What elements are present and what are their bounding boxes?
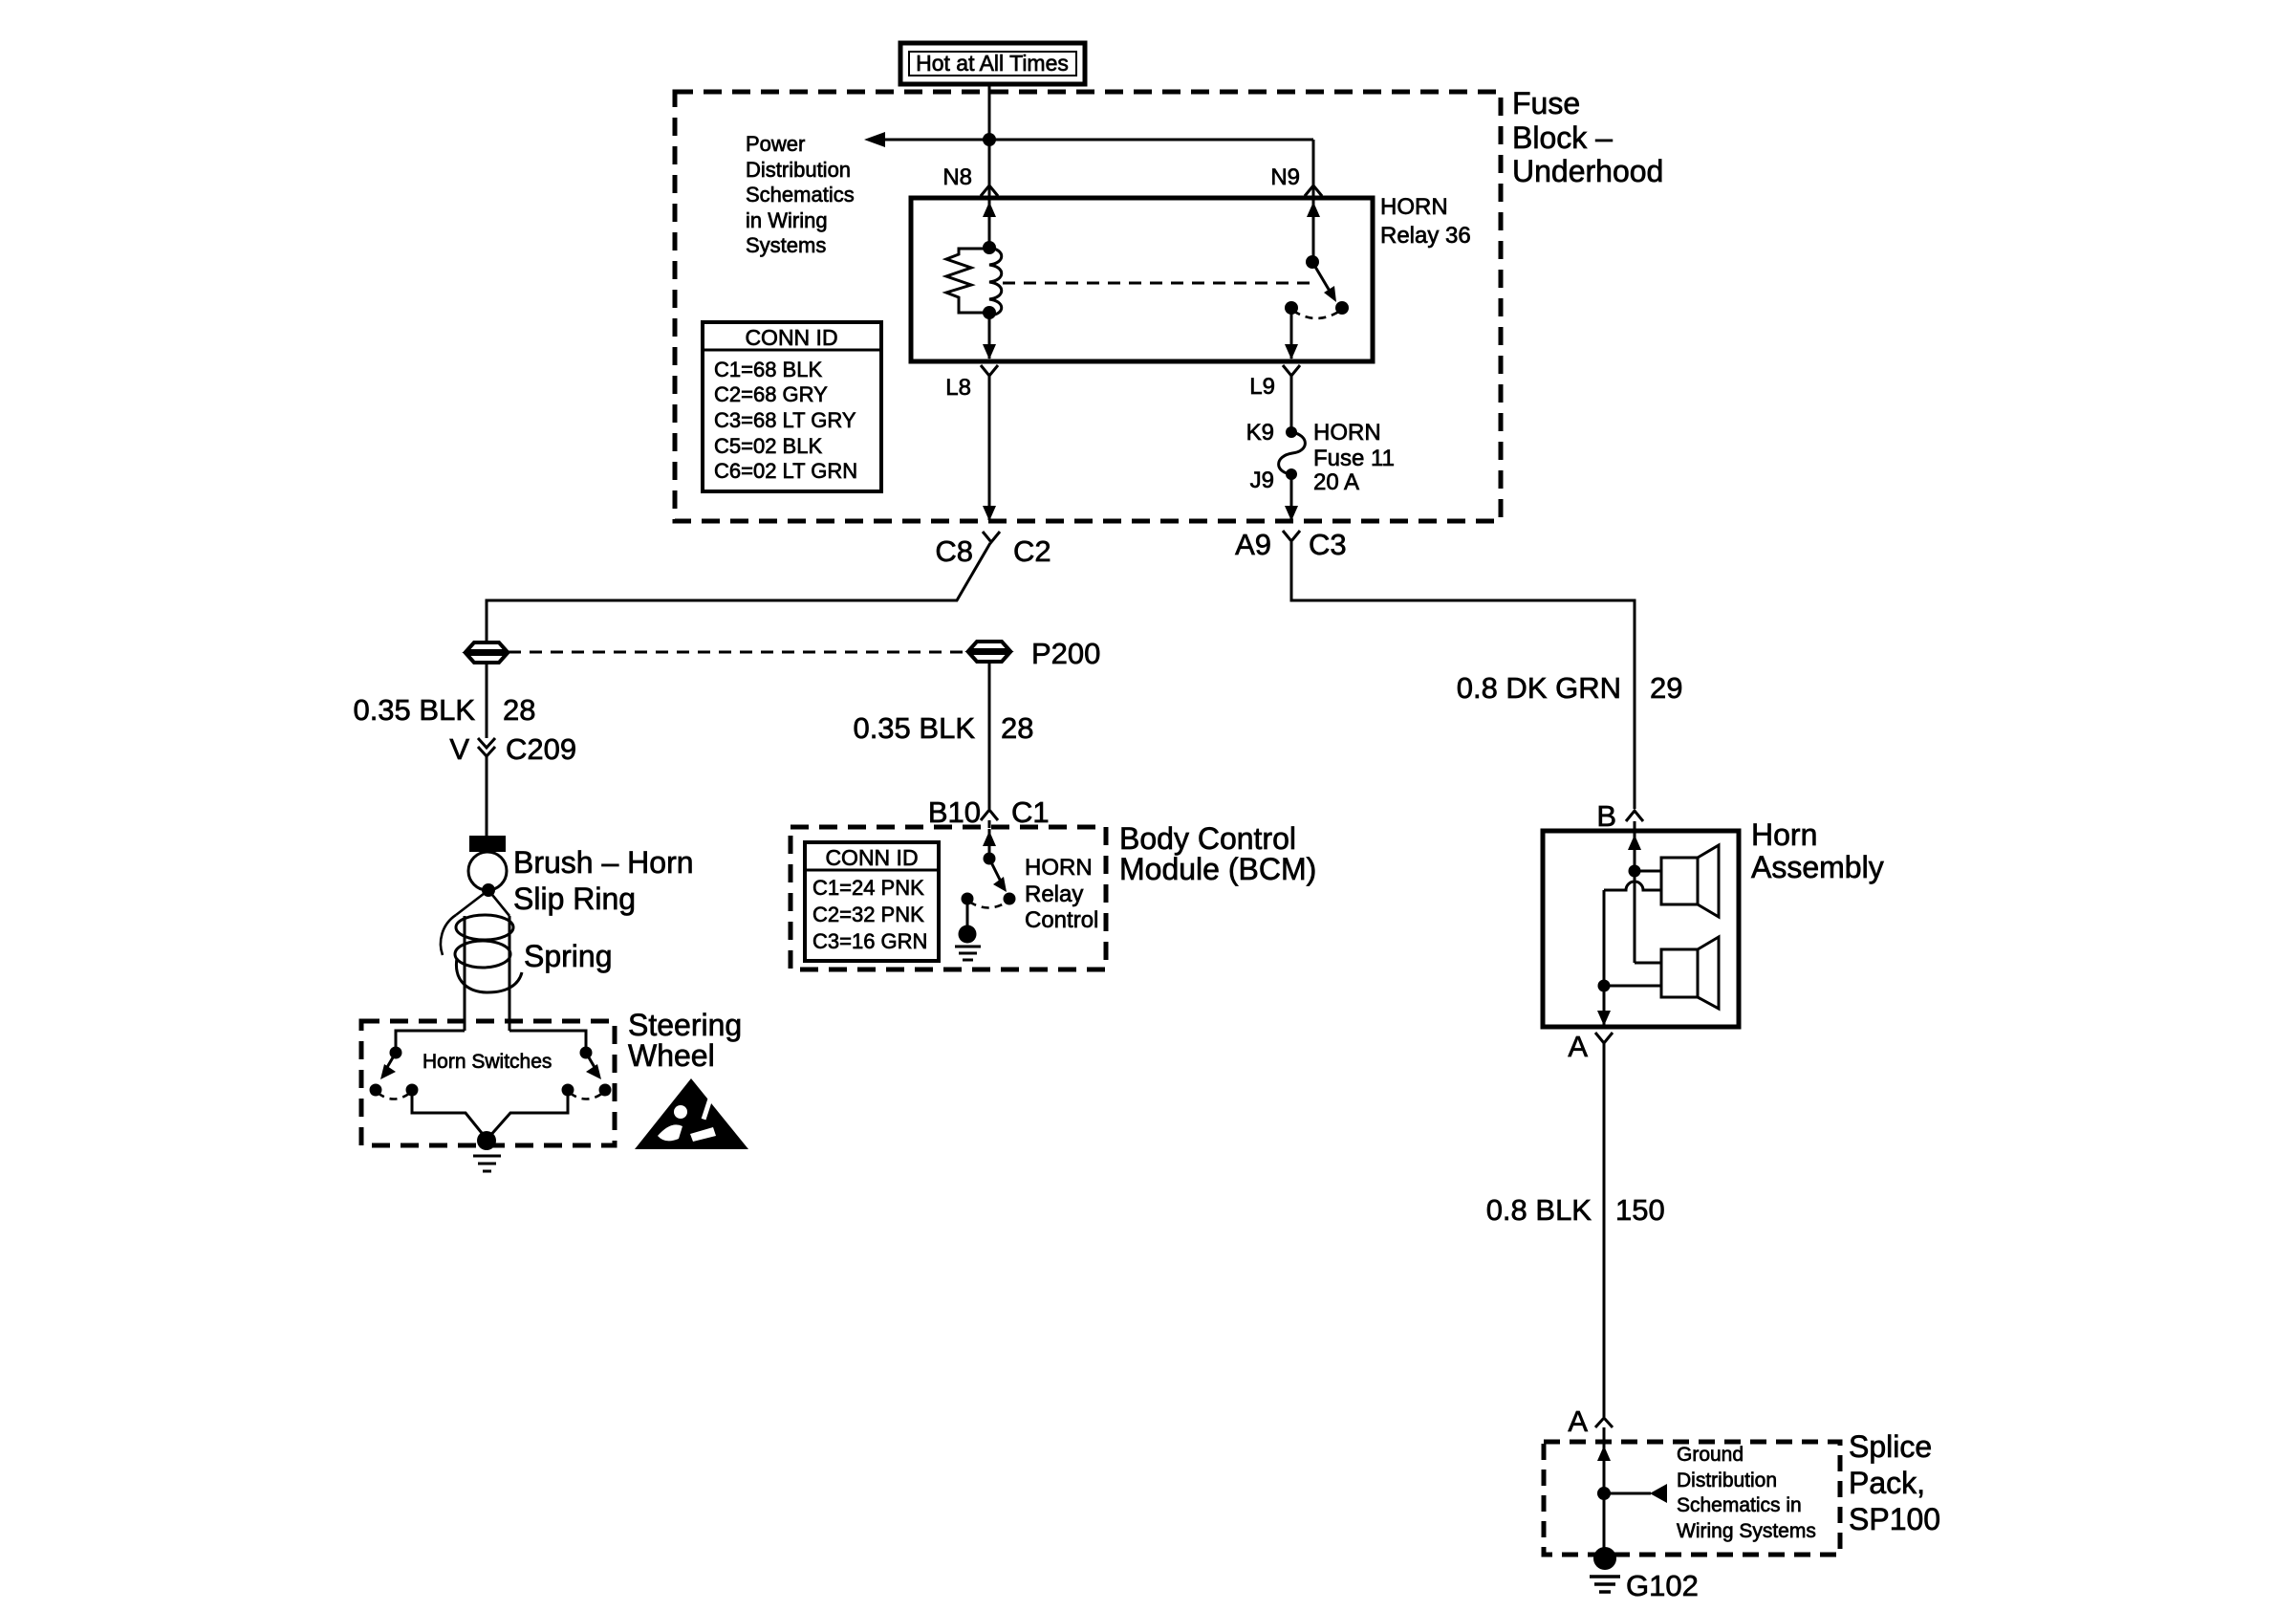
svg-text:150: 150 (1615, 1193, 1665, 1227)
coil (relay winding) (989, 248, 1002, 316)
dashed throw arc left switch (378, 1093, 410, 1099)
svg-text:0.35 BLK: 0.35 BLK (353, 693, 475, 727)
svg-text:N9: N9 (1270, 164, 1300, 190)
svg-text:J9: J9 (1250, 468, 1274, 493)
fuse block underhood dashed box (675, 92, 1501, 521)
svg-text:Module (BCM): Module (BCM) (1119, 852, 1316, 886)
svg-text:C6=02 LT GRN: C6=02 LT GRN (714, 459, 857, 483)
wire B entry with up arrow (1634, 833, 1636, 871)
upper horn speaker (1661, 858, 1698, 904)
svg-text:Distribution: Distribution (746, 158, 851, 182)
splice pack dashed box (1544, 1442, 1840, 1555)
svg-text:0.8 BLK: 0.8 BLK (1486, 1193, 1592, 1227)
CONN ID table (fuse block) (703, 322, 881, 491)
wire main down to lower horn (1634, 871, 1636, 963)
svg-text:Ground: Ground (1677, 1444, 1744, 1466)
dashed throw arc right switch (570, 1093, 603, 1099)
svg-text:Wheel: Wheel (628, 1038, 715, 1073)
SRS warning triangle (635, 1078, 748, 1149)
wire to ground distribution (arrow) (1604, 1492, 1651, 1495)
wire splice to ground (1603, 1493, 1606, 1549)
svg-text:P200: P200 (1031, 637, 1100, 670)
svg-text:Fuse: Fuse (1512, 86, 1580, 120)
node J9 (1286, 468, 1297, 480)
wire lower horn - terminal (1604, 985, 1661, 988)
svg-text:B: B (1596, 799, 1616, 833)
svg-text:C1: C1 (1011, 795, 1050, 829)
svg-text:0.35 BLK: 0.35 BLK (853, 711, 975, 745)
brush (filled block) (469, 836, 506, 852)
svg-text:20 A: 20 A (1313, 469, 1359, 495)
connector B chevron (1626, 811, 1643, 821)
grommet P200 (969, 642, 1009, 650)
svg-text:C1=68 BLK: C1=68 BLK (714, 358, 822, 381)
svg-text:Power: Power (746, 132, 805, 156)
node K9 (1286, 426, 1297, 438)
wire A9 to horn assembly B (1291, 542, 1635, 809)
node BCM left contact (962, 893, 974, 905)
node horn feed (1629, 865, 1641, 878)
svg-text:CONN ID: CONN ID (745, 325, 837, 350)
svg-text:C2=68 GRY: C2=68 GRY (714, 382, 828, 406)
svg-text:L8: L8 (945, 375, 971, 401)
svg-text:A: A (1568, 1404, 1588, 1438)
wire upper horn - terminal with hop over main (1604, 882, 1661, 890)
node relay output contact (1285, 301, 1298, 315)
node left output contact (406, 1084, 419, 1097)
svg-text:L9: L9 (1249, 374, 1275, 400)
connector N8 chevron (981, 185, 998, 196)
svg-text:HORN: HORN (1313, 420, 1381, 446)
node switch common (1306, 255, 1319, 269)
connector C209 double chevron (478, 738, 495, 748)
wire right horn switch feed (509, 1031, 586, 1053)
svg-text:28: 28 (1001, 711, 1033, 745)
wire BCM left contact to ground (966, 899, 969, 927)
node right switch (580, 1047, 593, 1059)
svg-text:Schematics: Schematics (746, 183, 855, 207)
connector A chevron (splice) (1595, 1418, 1613, 1427)
svg-text:Assembly: Assembly (1751, 850, 1884, 884)
node BCM right contact (1004, 893, 1016, 905)
svg-text:C3=16 GRN: C3=16 GRN (812, 929, 927, 953)
svg-text:A9: A9 (1235, 528, 1271, 561)
dashed grommet link (509, 651, 966, 654)
node relay NO contact (1335, 301, 1349, 315)
svg-text:C5=02 BLK: C5=02 BLK (714, 434, 822, 458)
wire L9 down to fuse (1290, 376, 1293, 432)
svg-text:Distribution: Distribution (1677, 1469, 1777, 1491)
right switch arm (586, 1053, 596, 1069)
grommet left (466, 642, 507, 651)
svg-text:C2=32 PNK: C2=32 PNK (812, 903, 924, 926)
slip ring circle (468, 852, 507, 890)
svg-text:Body Control: Body Control (1119, 821, 1296, 856)
svg-text:Hot at All Times: Hot at All Times (916, 51, 1069, 76)
wire left horn switch feed (396, 1031, 465, 1053)
HORN relay 36 box (911, 198, 1373, 361)
svg-text:SP100: SP100 (1849, 1502, 1940, 1536)
svg-text:CONN ID: CONN ID (825, 845, 918, 870)
node left NC contact (370, 1084, 382, 1097)
svg-text:C3=68 LT GRY: C3=68 LT GRY (714, 408, 856, 432)
wire C8 slant and run to left grommet (487, 543, 990, 642)
svg-text:Relay: Relay (1025, 882, 1083, 907)
resistor (relay) (946, 249, 989, 313)
svg-text:Underhood: Underhood (1512, 154, 1663, 188)
connector A9/C3 chevron (1283, 531, 1300, 541)
svg-text:Horn Switches: Horn Switches (422, 1051, 552, 1073)
ground G102 (1593, 1547, 1616, 1570)
node right NC contact (599, 1084, 612, 1097)
wire relay switch common (1312, 200, 1315, 262)
connector A chevron (horn) (1595, 1033, 1613, 1043)
svg-text:HORN: HORN (1025, 855, 1093, 881)
ground (steering) (477, 1131, 496, 1150)
svg-text:28: 28 (503, 693, 535, 727)
wire L9 out with down arrow (1290, 308, 1293, 359)
ground (BCM) (959, 925, 977, 944)
relay switch arm with arrow (1312, 262, 1331, 293)
wire horn to splice pack (1603, 1043, 1606, 1417)
svg-text:Brush – Horn: Brush – Horn (513, 845, 694, 880)
svg-text:G102: G102 (1626, 1569, 1699, 1602)
node junction hot feed (983, 133, 996, 146)
svg-text:29: 29 (1650, 671, 1682, 705)
svg-text:C2: C2 (1013, 534, 1051, 568)
svg-text:K9: K9 (1246, 420, 1274, 446)
fuse 11 S-curve (1279, 432, 1306, 474)
svg-text:Block –: Block – (1512, 120, 1613, 155)
wire left drop to C209 (486, 663, 488, 738)
connector C8/C2 chevron (983, 532, 1000, 542)
svg-text:Slip Ring: Slip Ring (513, 882, 636, 916)
node BCM switch common (984, 853, 996, 865)
wire left branch down (1603, 890, 1606, 986)
connector N9 chevron (1305, 185, 1322, 196)
BCM dashed box (791, 827, 1106, 969)
wire L8 out with down arrow (988, 313, 991, 359)
wire to upper horn + terminal (1635, 870, 1661, 873)
svg-text:Spring: Spring (524, 939, 613, 973)
svg-text:Splice: Splice (1849, 1429, 1932, 1464)
wire to lower horn + terminal (1635, 962, 1661, 965)
svg-text:B10: B10 (928, 795, 981, 829)
svg-text:Relay 36: Relay 36 (1380, 223, 1471, 249)
node slip ring contact (482, 883, 495, 897)
wire P200 down to B10 (988, 662, 991, 809)
svg-text:Wiring Systems: Wiring Systems (1677, 1520, 1816, 1542)
svg-text:0.8 DK GRN: 0.8 DK GRN (1457, 671, 1621, 705)
wire L8 down to C8 (988, 376, 991, 520)
wire to power distribution (arrow left) (880, 139, 1313, 142)
svg-text:Fuse 11: Fuse 11 (1313, 446, 1395, 471)
dashed throw arc relay (1293, 311, 1340, 318)
svg-text:HORN: HORN (1380, 194, 1448, 220)
svg-text:C3: C3 (1309, 528, 1347, 561)
wire hot feed down (988, 84, 991, 198)
left switch arm (386, 1053, 396, 1069)
svg-text:C1=24 PNK: C1=24 PNK (812, 876, 924, 900)
wire J9 down with arrow (1290, 474, 1293, 520)
svg-text:N8: N8 (942, 164, 972, 190)
steering wheel dashed box (361, 1021, 615, 1145)
wire left switch to ground (412, 1090, 486, 1138)
horn assembly box (1543, 831, 1739, 1027)
wire C209 down to brush (486, 756, 488, 836)
svg-text:C209: C209 (506, 732, 576, 766)
svg-text:A: A (1568, 1030, 1588, 1063)
Hot at All Times box (900, 43, 1085, 84)
dashed relay control line (1003, 282, 1310, 285)
svg-text:Systems: Systems (746, 233, 826, 257)
CONN ID table (BCM) (805, 842, 939, 961)
wire A exit with down arrow (1603, 986, 1606, 1025)
svg-text:Schematics in: Schematics in (1677, 1494, 1802, 1516)
svg-text:Control: Control (1025, 907, 1098, 933)
node right output contact (562, 1084, 574, 1097)
connector B10/C1 chevron (981, 810, 998, 820)
lower horn speaker (1661, 949, 1698, 997)
svg-text:C8: C8 (935, 534, 973, 568)
connector L8 chevron (981, 365, 998, 376)
spring coil (456, 890, 488, 915)
svg-text:Horn: Horn (1751, 817, 1817, 852)
svg-text:in Wiring: in Wiring (746, 208, 828, 232)
connector L9 chevron (1283, 365, 1300, 376)
wire relay coil feed with up arrow (988, 200, 991, 250)
wire spring legs down (464, 916, 466, 1031)
node coil bottom (983, 306, 996, 319)
svg-text:V: V (449, 732, 469, 766)
node left switch (390, 1047, 402, 1059)
wire right switch to ground (488, 1090, 568, 1138)
node splice (1597, 1487, 1611, 1500)
node coil top (983, 241, 996, 254)
svg-text:Steering: Steering (628, 1008, 742, 1042)
wire splice entry with up arrow (1603, 1427, 1606, 1493)
BCM switch arm (989, 859, 1001, 882)
wire right branch to N9 (1312, 140, 1315, 198)
wire BCM entry with up arrow (988, 829, 991, 859)
svg-text:Pack,: Pack, (1849, 1466, 1925, 1500)
dashed throw arc BCM switch (969, 902, 1007, 908)
node horn return (1598, 980, 1611, 992)
